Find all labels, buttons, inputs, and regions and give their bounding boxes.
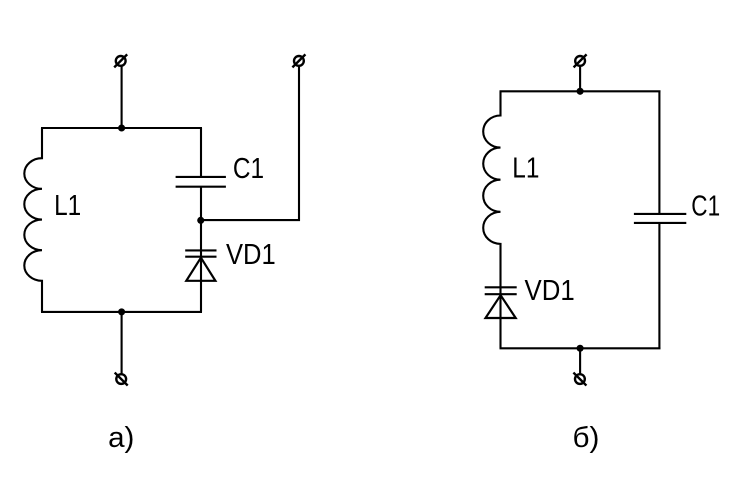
svg-text:б): б)	[573, 422, 600, 454]
wire from top node down to capacitor C1, circuit a	[200, 128, 202, 177]
varicap diode VD1 (circuit a): cathode plates and anode triangle	[185, 250, 216, 280]
wire from terminal X4 down to top node, circuit b	[579, 66, 581, 91]
wire from terminal X1 down to top node, circuit a	[121, 66, 123, 128]
junction bottom node, circuit a	[118, 308, 125, 315]
wire bottom horizontal, circuit a	[41, 311, 202, 313]
svg-text:C1: C1	[233, 153, 264, 185]
junction bottom node, circuit b	[577, 345, 584, 352]
wire from VD1 anode down to bottom wire, circuit b	[499, 287, 501, 348]
junction top node, circuit b	[577, 88, 584, 95]
wire right branch from top node down to capacitor C1, circuit b	[658, 91, 660, 214]
wire bottom horizontal, circuit b	[500, 347, 661, 349]
wire from C1 down to bottom wire, circuit b	[658, 223, 660, 348]
inductor L1 (circuit b) with leads	[483, 91, 500, 287]
wire from middle node right and up to terminal X3, circuit a	[201, 66, 299, 220]
svg-text:VD1: VD1	[525, 275, 575, 307]
junction middle node between C1 and VD1, circuit a	[197, 217, 204, 224]
terminal X4 (top input clamp, circuit b)	[574, 54, 587, 67]
svg-text:L1: L1	[54, 190, 81, 222]
capacitor C1 (circuit a)	[176, 177, 226, 187]
terminal X5 (bottom output clamp, circuit b)	[573, 373, 586, 386]
wire top horizontal, circuit b	[500, 90, 661, 92]
wire from C1 through middle node to varicap VD1 and bottom wire, circuit a	[200, 187, 202, 312]
svg-text:L1: L1	[512, 153, 539, 185]
wire top horizontal, circuit a	[41, 127, 202, 129]
terminal X2 (bottom output clamp, circuit a)	[115, 373, 128, 386]
svg-text:VD1: VD1	[226, 239, 276, 271]
junction top node, circuit a	[118, 124, 125, 131]
varicap diode VD1 (circuit b): cathode plates and anode triangle	[485, 287, 517, 318]
wire from bottom node down to terminal X5, circuit b	[579, 348, 581, 373]
terminal X1 (top-left input clamp, circuit a)	[114, 54, 127, 67]
inductor L1 (circuit a) with leads	[24, 128, 42, 312]
svg-text:C1: C1	[691, 190, 720, 222]
wire from bottom node down to terminal X2, circuit a	[121, 312, 123, 374]
capacitor C1 (circuit b)	[634, 214, 686, 223]
svg-text:а): а)	[108, 422, 134, 454]
terminal X3 (top-right control input clamp, circuit a)	[292, 54, 305, 67]
